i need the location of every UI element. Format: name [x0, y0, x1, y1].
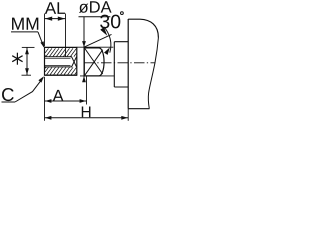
* arrow down	[25, 68, 29, 74]
AL arrow left	[45, 17, 52, 21]
label oDA	[79, 4, 88, 13]
C leader	[15, 77, 43, 102]
sleeve hatching top band	[45, 48, 76, 56]
30deg dimension arc	[104, 27, 111, 53]
label * (asterisk)	[16, 53, 18, 65]
ball pin cross X	[85, 49, 103, 75]
bottom tangent extension line	[80, 75, 114, 77]
body break line	[148, 38, 158, 109]
label H	[82, 107, 91, 118]
H arrow left	[45, 116, 51, 120]
thread crest lines	[45, 57, 71, 59]
oDA arrow up (tip at bottom tangent, from below)	[82, 76, 86, 82]
sleeve hatching bottom band	[45, 67, 76, 74]
bore end cone cross	[72, 57, 77, 67]
AL extension lines	[44, 14, 46, 47]
H arrow right	[121, 116, 127, 120]
label MM	[12, 18, 24, 30]
technical drawing: sectioned knob with threaded bore, ball with cross, boss and broken lever body	[0, 0, 160, 121]
H dimension line	[45, 117, 129, 119]
sleeve bore walls	[45, 56, 73, 58]
label C	[2, 88, 14, 101]
label AL	[45, 2, 56, 14]
oDA dimension line (vertical)	[83, 17, 85, 82]
oDA underline	[79, 16, 111, 18]
body left face + H extension	[127, 19, 129, 109]
degree symbol	[121, 12, 124, 15]
MM leader arrow	[40, 41, 44, 47]
body top edge and rounded corner	[128, 19, 158, 37]
30deg arc arrow lower	[104, 47, 110, 54]
sleeve outline	[45, 46, 77, 48]
bore entry chamfer	[45, 55, 47, 57]
ball pin outline	[84, 48, 104, 76]
A right extension line	[86, 76, 88, 104]
ball pin left face	[83, 48, 85, 76]
* arrow up	[25, 48, 29, 54]
oDA arrow down (tip at top tangent, from above)	[82, 41, 86, 47]
A dimension line	[45, 100, 87, 102]
C underline	[2, 101, 16, 103]
label 30	[100, 15, 109, 29]
30deg flank line	[84, 34, 112, 47]
C leader arrow	[38, 76, 44, 82]
* dimension line	[26, 47, 28, 75]
30deg arc arrow upper	[100, 27, 107, 36]
MM leader	[11, 31, 38, 33]
label A	[53, 90, 64, 101]
* extension ticks	[22, 46, 35, 48]
body bottom edge	[128, 108, 149, 110]
top tangent extension line	[77, 46, 114, 48]
A/H left extension line	[44, 77, 46, 121]
centerline (dash-dot)	[85, 62, 156, 64]
A arrow right	[80, 99, 86, 103]
A arrow left	[45, 99, 51, 103]
AL dimension line	[45, 18, 66, 20]
boss outline	[114, 42, 128, 87]
AL arrow right	[58, 17, 65, 21]
